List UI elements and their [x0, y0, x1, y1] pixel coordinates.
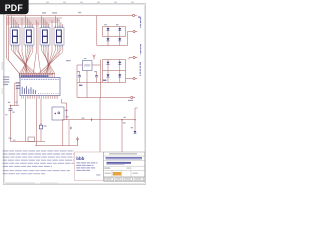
- wires: U1 pins down to bottom rails: [35, 99, 78, 146]
- diode D8: [118, 74, 121, 77]
- logo cell box: [75, 152, 104, 181]
- logo tagline lines: [76, 163, 97, 171]
- net label text above wires: [42, 12, 81, 14]
- preset RV1: [9, 137, 35, 141]
- power flag: [93, 55, 96, 60]
- terminal T4: [133, 77, 137, 79]
- svg-text:bbb: bbb: [76, 156, 84, 161]
- microcontroller U1: [20, 78, 60, 96]
- wires: outputs to lower rail: [77, 83, 131, 153]
- right margin vertical net labels: [139, 18, 141, 77]
- small row text: [104, 168, 110, 169]
- net name text row above IC: [21, 75, 49, 77]
- 7-segment display DISP2: [24, 26, 34, 47]
- oscillator labels far left: [3, 76, 9, 85]
- wire left vertical bus: [7, 16, 9, 61]
- diode D5: [106, 62, 109, 65]
- bridge rectifier BR2 wires: [77, 58, 133, 83]
- title block table: [104, 152, 145, 181]
- project name blue row: [107, 162, 132, 164]
- crystal X1: [39, 125, 46, 129]
- diode D7: [106, 74, 109, 77]
- terminal T5: [131, 96, 135, 98]
- institute blue row: [106, 157, 143, 159]
- bottom-left description paragraph: [3, 151, 75, 167]
- power label texts: [79, 80, 106, 86]
- diode D1: [106, 28, 109, 31]
- junction node: [40, 123, 41, 124]
- capacitor C2 on net: [91, 118, 93, 121]
- revision orange cell: [113, 172, 121, 176]
- 7-segment display DISP3: [40, 26, 50, 47]
- regulator U3 7805: [83, 59, 93, 71]
- sheet border frame (decorative): [4, 4, 146, 185]
- terminal T1: [133, 14, 137, 16]
- diode D3: [106, 38, 109, 41]
- ground arrow symbol: [76, 137, 79, 146]
- wire bundle above displays: [7, 16, 133, 25]
- capacitor C1: [9, 109, 13, 110]
- terminal T3: [133, 56, 137, 58]
- net label right of fan: [66, 60, 71, 61]
- capacitor C3: [79, 72, 81, 83]
- wire: left RC sub-circuit: [11, 83, 46, 142]
- bottom-left second paragraph: [3, 171, 71, 174]
- bridge rectifier BR1 wires: [97, 16, 133, 46]
- capacitor C4: [96, 72, 98, 83]
- 7-segment display DISP4: [54, 26, 64, 47]
- junction node: [10, 105, 12, 107]
- wire: regulator connections: [77, 60, 101, 98]
- sensor U2 box: [52, 107, 68, 120]
- diode D2: [118, 28, 121, 31]
- zener diode D9: [134, 131, 137, 134]
- PDF badge: [0, 0, 29, 14]
- company name text: [109, 153, 137, 154]
- wire: U1 to long horizontal net: [61, 99, 135, 146]
- cells row separators: [112, 170, 131, 176]
- wires between displays: [22, 18, 52, 74]
- diode D6: [118, 62, 121, 65]
- U1 bottom pin stubs: [22, 96, 58, 99]
- svg-text:PDF: PDF: [5, 3, 24, 13]
- terminal T2: [133, 30, 137, 32]
- 7-segment display DISP1: [10, 26, 20, 47]
- wire fan from displays to IC: [7, 47, 63, 78]
- diode D4: [118, 38, 121, 41]
- wire convergence band: [19, 73, 55, 74]
- zener branch wires: [122, 108, 138, 152]
- footer cells: [105, 177, 144, 180]
- diode labels D1 D2: [104, 24, 118, 25]
- pin labels left of U1: [16, 82, 20, 89]
- wires: bundle drops to display pins: [11, 16, 62, 28]
